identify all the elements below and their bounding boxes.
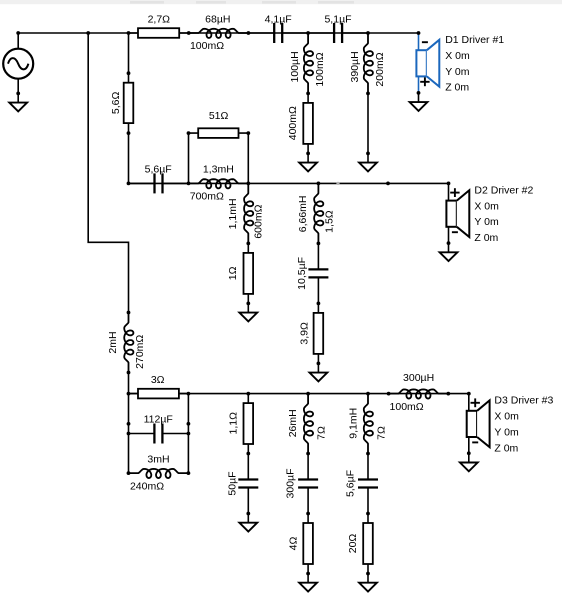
node 5,6µF bottom [366, 512, 370, 516]
node 50µF bottom [246, 512, 250, 516]
node source top rail [16, 31, 20, 35]
node B1 [127, 182, 131, 186]
wire third rail (woofer) [129, 393, 469, 395]
node 4Ω bottom [306, 572, 310, 576]
node 300µF bottom [306, 512, 310, 516]
svg-text:2,7Ω: 2,7Ω [148, 14, 171, 26]
svg-text:1,3mH: 1,3mH [203, 164, 234, 176]
svg-text:390µH: 390µH [349, 51, 361, 82]
svg-text:100µH: 100µH [289, 51, 301, 82]
driver D2 midrange [448, 183, 450, 200]
svg-text:1,1mH: 1,1mH [227, 198, 239, 229]
node 3mH right [187, 471, 191, 475]
node A3 [127, 31, 131, 35]
svg-text:100mΩ: 100mΩ [390, 401, 424, 413]
svg-text:7Ω: 7Ω [376, 426, 388, 440]
svg-text:26mH: 26mH [287, 409, 299, 437]
resistor 1,1Ω shunt branch [247, 394, 249, 454]
svg-text:X 0m: X 0m [474, 200, 499, 212]
capacitor 112µF parallel [129, 433, 155, 435]
AC source V1 [3, 49, 33, 79]
svg-text:300µF: 300µF [285, 469, 297, 499]
svg-text:100mΩ: 100mΩ [314, 52, 326, 86]
svg-text:4Ω: 4Ω [288, 537, 300, 551]
node 10,5µF bottom [317, 302, 321, 306]
svg-text:700mΩ: 700mΩ [190, 191, 224, 203]
node 1,1Ω bottom [246, 452, 250, 456]
node B3 [246, 182, 250, 186]
node D1 bottom [417, 91, 421, 95]
svg-text:270mΩ: 270mΩ [134, 335, 146, 369]
svg-text:X 0m: X 0m [494, 411, 519, 423]
svg-text:5,6µF: 5,6µF [145, 164, 172, 176]
capacitor 5,1µF series tweeter [308, 32, 334, 34]
svg-text:1,1Ω: 1,1Ω [227, 412, 239, 435]
node source-ground [16, 92, 20, 96]
inductor 1,3mH parallel with 51Ω [189, 179, 249, 188]
node D3 top corner [467, 392, 471, 396]
inductor 1,1mH shunt with 600mΩ [244, 183, 253, 243]
node D2 top corner [447, 182, 451, 186]
inductor 6,66mH shunt with 1,5Ω [314, 183, 323, 243]
inductor 100µH shunt with 400mΩ [304, 33, 313, 93]
node C5 [366, 392, 370, 396]
resistor 1Ω [247, 243, 249, 303]
node 3mH left [127, 471, 131, 475]
svg-text:Z 0m: Z 0m [474, 232, 498, 244]
svg-text:400mΩ: 400mΩ [287, 106, 299, 140]
node 1,1mH bottom [246, 242, 250, 246]
node D2 bottom [447, 241, 451, 245]
capacitor 50µF [247, 454, 249, 480]
node 6,66mH bottom [317, 242, 321, 246]
svg-text:3Ω: 3Ω [151, 374, 165, 386]
wire 390µH to ground [367, 93, 369, 153]
ground 400mΩ branch [307, 153, 309, 162]
resistor 400mΩ [307, 93, 309, 153]
node 112µF right [187, 432, 191, 436]
node A6 [306, 31, 310, 35]
svg-text:Y 0m: Y 0m [445, 66, 470, 78]
capacitor 5,6µF series midrange [129, 182, 155, 184]
svg-text:X 0m: X 0m [445, 50, 470, 62]
node 51Ω right [246, 131, 250, 135]
node 5,6Ω top [127, 71, 131, 75]
resistor 5,6Ω shunt tweeter input [128, 33, 130, 183]
node 100µH bottom [306, 92, 310, 96]
node A5 [247, 31, 251, 35]
resistor 4Ω [307, 514, 309, 574]
resistor 2,7Ω series tweeter [129, 32, 189, 34]
ground D2 [448, 243, 450, 252]
inductor 390µH shunt with 200mΩ [364, 33, 373, 93]
inductor 2mH series with 270mΩ [124, 313, 133, 373]
svg-text:D3 Driver #3: D3 Driver #3 [494, 395, 553, 407]
resistor 3,9Ω [317, 303, 319, 363]
svg-text:7Ω: 7Ω [316, 426, 328, 440]
svg-text:240mΩ: 240mΩ [130, 481, 164, 493]
svg-text:1,5Ω: 1,5Ω [324, 210, 336, 233]
node 400mΩ bottom [306, 152, 310, 156]
ground below source [17, 93, 19, 102]
node C7 [446, 392, 450, 396]
capacitor 300µF [307, 454, 309, 480]
top window toolbar strip [0, 0, 562, 4]
svg-text:6,66mH: 6,66mH [297, 196, 309, 233]
capacitor 10,5µF [317, 243, 319, 269]
wire source to ground [17, 33, 19, 49]
node 26mH bottom [306, 452, 310, 456]
inductor 9,1mH shunt with 7Ω [364, 394, 373, 454]
wire left bus down from top rail [88, 33, 128, 313]
svg-text:4,1µF: 4,1µF [265, 13, 292, 25]
driver D3 woofer [468, 394, 470, 411]
svg-text:20Ω: 20Ω [347, 534, 359, 554]
node B4 (6,66mH tap) [317, 182, 321, 186]
node 390µH bottom [366, 92, 370, 96]
node 2mH top [127, 311, 131, 315]
parallel block left wire [128, 394, 130, 474]
resistor 3Ω series woofer [129, 393, 189, 395]
ground 20Ω branch [367, 574, 369, 583]
node 112µF left [127, 432, 131, 436]
driver D1 tweeter [418, 33, 420, 50]
ground D1 [418, 93, 420, 102]
inductor 26mH shunt with 7Ω [304, 394, 313, 454]
node 9,1mH bottom [366, 452, 370, 456]
svg-text:300µH: 300µH [403, 372, 434, 384]
svg-text:5,6µF: 5,6µF [345, 470, 357, 497]
svg-text:Z 0m: Z 0m [445, 82, 469, 94]
node C4 [306, 392, 310, 396]
node C3 [246, 392, 250, 396]
wire top rail from source to D1 [18, 32, 418, 34]
node 51Ω left [187, 131, 191, 135]
svg-text:9,1mH: 9,1mH [347, 408, 359, 439]
resistor 20Ω [367, 514, 369, 574]
ground 50µF branch [247, 514, 249, 523]
faint unconnected node [336, 182, 339, 185]
svg-text:3,9Ω: 3,9Ω [298, 322, 310, 345]
node A4 [187, 31, 191, 35]
node A7 [366, 31, 370, 35]
svg-text:600mΩ: 600mΩ [253, 204, 265, 238]
node 5,6Ω bottom [127, 131, 131, 135]
svg-text:112µF: 112µF [144, 414, 173, 426]
svg-text:10,5µF: 10,5µF [296, 257, 308, 290]
inductor 300µH series with 100mΩ [389, 389, 449, 398]
node 1Ω bottom [246, 302, 250, 306]
svg-text:51Ω: 51Ω [209, 110, 229, 122]
svg-text:1Ω: 1Ω [227, 266, 239, 280]
svg-text:50µF: 50µF [226, 471, 238, 495]
node B5 [386, 182, 390, 186]
node D3 bottom [467, 451, 471, 455]
capacitor 5,6µF shunt branch [367, 454, 369, 480]
ground 4Ω branch [307, 574, 309, 583]
svg-text:D1 Driver #1: D1 Driver #1 [445, 34, 504, 46]
svg-text:2mH: 2mH [107, 331, 119, 353]
node A2 [86, 31, 90, 35]
parallel block right wire [187, 394, 189, 474]
svg-text:200mΩ: 200mΩ [374, 52, 386, 86]
svg-text:D2 Driver #2: D2 Driver #2 [474, 184, 533, 196]
svg-text:Z 0m: Z 0m [494, 442, 518, 454]
svg-text:Y 0m: Y 0m [474, 216, 499, 228]
node pblock right upper [187, 422, 191, 426]
wire 2mH to third rail [128, 373, 130, 394]
inductor 3mH parallel with 240mΩ [129, 469, 189, 478]
wire second rail (midrange) [129, 182, 449, 184]
node C6 [387, 392, 391, 396]
ground 390µH branch [367, 153, 369, 162]
node B2 [187, 182, 191, 186]
resistor 51Ω parallel [188, 133, 190, 183]
svg-text:100mΩ: 100mΩ [190, 40, 224, 52]
svg-text:68µH: 68µH [205, 14, 230, 26]
ground D3 [468, 453, 470, 462]
svg-text:Y 0m: Y 0m [494, 426, 519, 438]
node 2mH bottom [127, 371, 131, 375]
node wire-ground [366, 152, 370, 156]
ground 1Ω branch [247, 303, 249, 312]
node C2 [187, 392, 191, 396]
node 20Ω bottom [366, 572, 370, 576]
svg-text:3mH: 3mH [147, 453, 169, 465]
svg-text:5,6Ω: 5,6Ω [110, 92, 122, 115]
svg-text:5,1µF: 5,1µF [324, 13, 351, 25]
capacitor 4,1µF series tweeter [248, 32, 274, 34]
node 3,9Ω bottom [317, 362, 321, 366]
node pblock left upper [127, 422, 131, 426]
ground 3,9Ω branch [317, 363, 319, 372]
inductor 68µH series tweeter [189, 29, 249, 38]
node C1 [127, 392, 131, 396]
node D1 top corner [417, 31, 421, 35]
